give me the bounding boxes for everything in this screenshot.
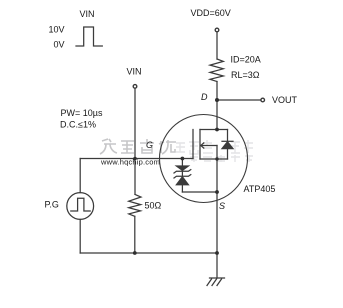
wire drain top link [200,129,228,131]
svg-text:PW= 10µs: PW= 10µs [61,108,103,118]
svg-text:VDD=60V: VDD=60V [191,8,231,18]
svg-text:P.G: P.G [45,199,59,209]
wire VIN junction to 50ohm [134,159,136,195]
wire node D to VOUT [217,99,261,101]
svg-text:VIN: VIN [127,66,142,76]
node D junction [215,98,219,102]
svg-text:ATP405: ATP405 [244,184,276,194]
node VDD terminal [215,28,219,32]
node drain-diode junction [215,128,219,132]
wire bottom rail [80,252,217,254]
wire gate lead G [80,158,193,160]
svg-text:ID=20A: ID=20A [231,55,261,65]
resistor 50ohm [129,194,141,216]
watermark faint right [176,140,253,162]
wire body tap with arrow [201,145,217,147]
wire zener to source [182,191,217,193]
svg-text:50Ω: 50Ω [145,201,162,211]
wire 50ohm to rail [134,216,136,253]
svg-text:G: G [146,140,153,150]
node VIN junction [133,157,137,161]
svg-text:VOUT: VOUT [272,95,298,105]
resistor RL [210,59,223,82]
watermark 华强芯城 [100,139,176,154]
node source junction [215,157,218,160]
ground [210,277,225,279]
wire resistor to node D [216,82,218,101]
body diode D1 [227,130,229,142]
wire source lead S [216,159,218,253]
node zener-gate junction [181,157,185,161]
svg-text:D: D [201,92,208,102]
wire PG up [79,159,81,193]
wire source link [200,158,228,160]
wire PG down to rail [79,219,81,253]
wire to ground [216,253,218,278]
svg-text:D.C.≤1%: D.C.≤1% [60,119,96,129]
node VIN terminal [133,85,137,89]
node VOUT terminal [261,98,265,102]
generator P.G [67,193,94,220]
svg-text:VIN: VIN [80,9,95,19]
node zener-source junction [215,190,219,194]
wire VIN down [134,88,136,158]
MOSFET package circle ATP405 [160,115,248,203]
transistor channel bar [199,130,201,160]
zener stack gate protection [181,159,183,193]
node 50ohm rail junction [133,251,137,255]
svg-text:10V: 10V [48,24,64,34]
wire drain [216,100,218,130]
wire VDD to resistor [216,32,218,59]
node rail source junction [215,251,219,255]
svg-text:S: S [219,201,225,211]
waveform VIN pulse (top-left) [76,27,102,46]
svg-text:0V: 0V [53,40,64,50]
svg-text:RL=3Ω: RL=3Ω [231,70,260,80]
junction dots [133,98,219,255]
transistor gate bar [192,130,194,159]
